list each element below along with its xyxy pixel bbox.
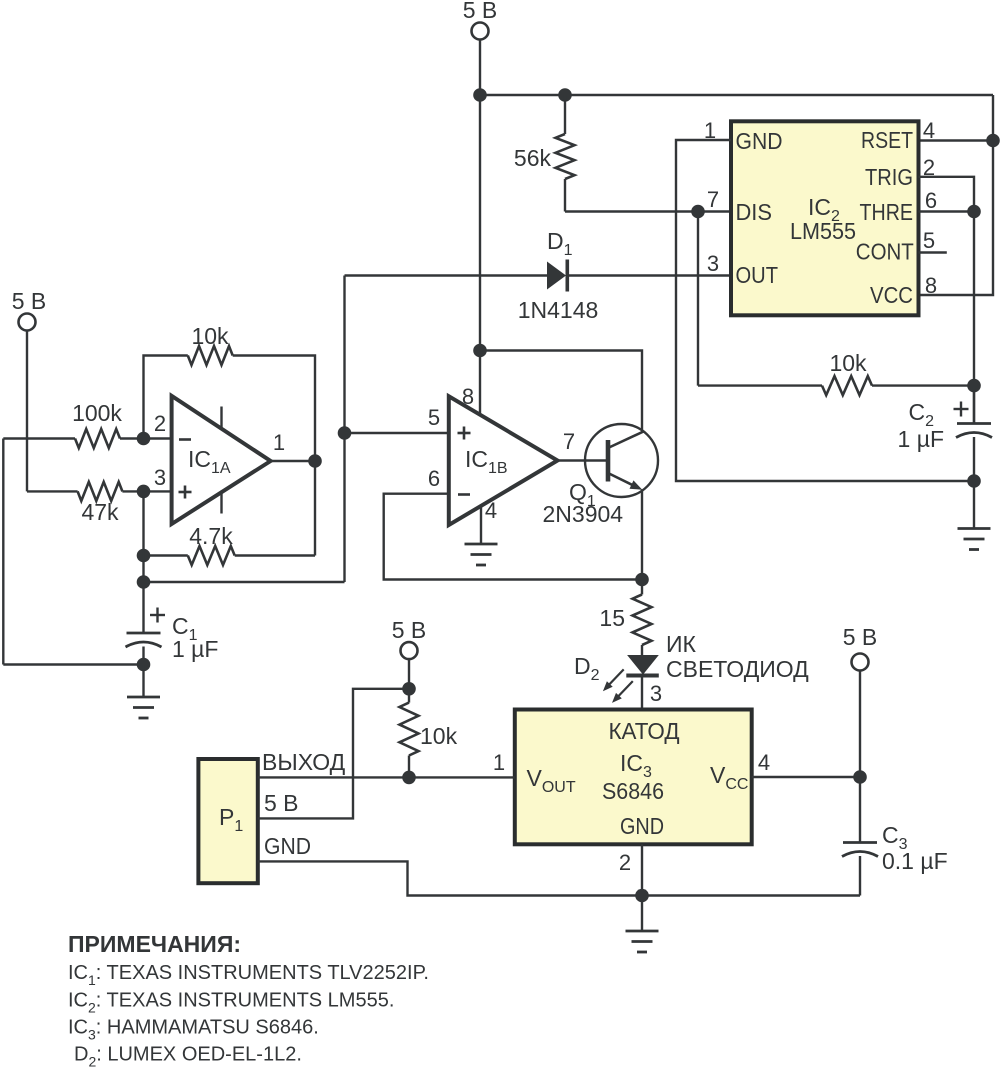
wire IC1B pin 4 stub [480,505,482,543]
svg-text:IC1A: IC1A [188,446,231,477]
wire C2 to ground [973,481,975,528]
pin number 1 (IC1A out) [273,430,285,455]
pin label OUT (IC2) [736,262,779,288]
pin number 3 (IC3) [650,681,662,706]
wire Q1 emitter down [641,490,643,580]
svg-text:1 µF: 1 µF [898,426,944,452]
svg-text:TRIG: TRIG [865,164,913,190]
wire THRE pin 6 [919,210,975,212]
wire IC1B output pin 7 [558,459,607,461]
pin label RSET (IC2) [861,127,913,153]
wire left rail (100k to C1 bottom) [2,439,4,665]
svg-text:5 В: 5 В [264,790,299,816]
wire IC1B pin 6 loop [384,494,642,580]
label 5 В (right terminal) [843,624,878,650]
pin number 6 (IC1B) [428,466,440,491]
svg-text:2: 2 [619,850,631,875]
pin label GND (IC2) [736,128,783,154]
power terminal 5 V (left) [19,314,36,492]
svg-text:GND: GND [736,128,783,154]
label 15 [599,605,625,631]
svg-text:5 В: 5 В [392,617,427,643]
pin number 8 (IC1B) [462,384,474,409]
svg-text:1N4148: 1N4148 [518,297,599,323]
svg-text:GND: GND [264,833,311,859]
label C3 [882,822,908,853]
pin number 5 (IC1B) [428,405,440,430]
pin label VCC (IC2) [870,282,913,308]
wire node to IC1B area [144,581,345,583]
junction top rail / 5V stem [473,88,487,102]
junction 10k top [402,682,416,696]
svg-text:10k: 10k [420,723,458,749]
label 47k [81,499,119,525]
junction emitter / pin6 loop / R15 [635,573,649,587]
label Q1 [569,479,596,510]
junction 4.7k / pin3 column [137,549,151,563]
junction GND rail / IC3 pin2 [635,889,649,903]
wire pin2 to ground [641,896,643,931]
non-inverting input marker (IC1B) [458,427,471,440]
ground (C1) [127,697,160,718]
svg-text:6: 6 [428,466,440,491]
pin number 4 (IC1B) [485,498,497,523]
junction IC1A output / feedback [308,454,322,468]
svg-text:4.7k: 4.7k [189,523,233,549]
pin label CONT (IC2) [856,239,914,265]
pin number 4 (IC3) [758,750,770,775]
svg-text:DIS: DIS [736,199,773,225]
svg-text:LM555: LM555 [790,218,856,244]
svg-text:IC2: TEXAS INSTRUMENTS LM555.: IC2: TEXAS INSTRUMENTS LM555. [68,990,394,1016]
wire RSET pin 4 [919,139,994,141]
label GND (P1 pin) [264,833,311,859]
note IC3 [68,1017,319,1043]
resistor 10k (IC2 timing) [698,376,974,395]
label 10k (IC1A feedback) [191,323,229,349]
label IC3 inside [620,750,652,781]
svg-text:OUT: OUT [736,262,779,288]
inverting input marker (IC1A) [179,438,191,441]
svg-text:4: 4 [758,750,770,775]
svg-text:ПРИМЕЧАНИЯ:: ПРИМЕЧАНИЯ: [68,931,241,957]
svg-text:D1: D1 [547,228,573,259]
label 100k [72,400,122,426]
resistor 56k [556,95,575,212]
svg-text:3: 3 [707,251,719,276]
svg-text:47k: 47k [81,499,119,525]
wire 5V stem down (to IC1B pin 8) [479,95,481,415]
label КАТОД (IC3) [609,718,680,744]
svg-text:3: 3 [154,465,166,490]
svg-text:ВЫХОД: ВЫХОД [262,749,346,775]
emission arrow 1 (D2) [603,669,624,691]
pin number 7 (IC1B out) [563,429,575,454]
connector P1 body [198,759,257,883]
svg-text:10k: 10k [829,350,867,376]
label IC2 inside [808,194,840,225]
wire 5V to Q1 collector [480,351,642,433]
label 0.1 uF (C3) [882,848,948,874]
pin number 1 (IC2 GND) [704,118,716,143]
svg-text:4: 4 [923,118,935,143]
svg-text:D2: D2 [574,653,600,684]
pin label TRIG (IC2) [865,164,913,190]
op-amp IC1A [172,396,271,524]
junction C2 bottom / GND rail [967,474,981,488]
op-amp IC1B [449,396,558,525]
resistor 10k (IC1A feedback) [144,346,316,556]
svg-text:1: 1 [273,430,285,455]
IC U3 S6846 body [515,710,752,845]
wire ВЫХОД (P1 to IC3 pin 1) [258,776,515,778]
svg-text:0.1 µF: 0.1 µF [882,848,948,874]
label C2 [908,399,934,430]
label ВЫХОД [262,749,346,775]
svg-text:2N3904: 2N3904 [543,501,624,527]
svg-text:5 В: 5 В [12,288,47,314]
label 5 В (top terminal) [463,0,498,23]
svg-text:2: 2 [154,411,166,436]
wire pin3 column [142,491,144,632]
pin label VOUT (IC3) [527,765,576,796]
power terminal 5 V (top) [472,23,489,96]
svg-text:THRE: THRE [860,199,914,225]
svg-text:5 В: 5 В [463,0,498,23]
pin number 6 (IC2 THRE) [925,188,937,213]
wire 5V rail right drop to VCC [919,95,994,295]
notes title ПРИМЕЧАНИЯ [68,931,241,957]
label P1 inside [219,804,243,835]
label 4.7k [189,523,233,549]
svg-text:10k: 10k [191,323,229,349]
LED D2 [626,645,659,710]
svg-text:ИК: ИК [666,631,697,657]
wire TRIG pin 2 [919,177,975,423]
junction 10k / C2 [967,379,981,393]
pin number 5 (IC2 CONT) [923,228,935,253]
wire C1 bottom to left rail [3,663,143,665]
capacitor C3 [842,777,878,896]
non-inverting input marker (IC1A) [179,486,192,499]
junction DIS / 10k branch [691,205,705,219]
label S6846 inside [602,778,664,804]
svg-text:RSET: RSET [861,127,913,153]
svg-text:15: 15 [599,605,625,631]
transistor Q1 [585,424,658,497]
wire C1 to ground [142,665,144,697]
svg-text:IC1: TEXAS INSTRUMENTS TLV2252: IC1: TEXAS INSTRUMENTS TLV2252IP. [68,962,429,988]
IC U2 LM555 body [731,121,919,315]
label СВЕТОДИОД [666,656,809,682]
pin number 3 (IC2 OUT) [707,251,719,276]
svg-text:VCC: VCC [870,282,913,308]
label C1 [172,613,198,644]
svg-text:56k: 56k [514,145,552,171]
wire IC1A output [271,460,315,462]
pin number 3 (IC1A) [154,465,166,490]
pin label DIS (IC2) [736,199,773,225]
label ИК [666,631,697,657]
junction RSET tap [986,134,1000,148]
polarity + (C1) [150,608,165,623]
svg-text:5: 5 [428,405,440,430]
svg-text:3: 3 [650,681,662,706]
label IC1A inside [188,446,231,477]
junction C1 bottom [137,658,151,672]
svg-text:GND: GND [620,813,664,839]
pin label THRE (IC2) [860,199,914,225]
diode D1 [547,260,567,292]
pin number 2 (IC1A) [154,411,166,436]
label 56k [514,145,552,171]
label 1N4148 [518,297,599,323]
label 1 uF (C1) [172,636,218,662]
svg-text:IC1B: IC1B [465,446,508,477]
junction THRE [967,205,981,219]
pin label VCC (IC3) [710,762,748,793]
svg-text:5: 5 [923,228,935,253]
wire CONT pin 5 stub [919,251,947,253]
inverting input marker (IC1B) [458,493,470,496]
wire GND pin (P1) [258,861,860,895]
label LM555 inside [790,218,856,244]
label 5 В (middle terminal) [392,617,427,643]
svg-text:7: 7 [707,187,719,212]
wire OUT pin 3 to node (via D1) [345,274,732,276]
junction IC1A pin 3 [137,485,151,499]
label 5 В (left terminal) [12,288,47,314]
wire IC2 GND pin 1 [676,140,974,481]
wire IC1B pin 5 [345,432,449,434]
svg-text:8: 8 [925,273,937,298]
svg-text:4: 4 [485,498,497,523]
resistor 15 [633,580,652,646]
label 1 uF (C2) [898,426,944,452]
resistor 100k [3,429,171,448]
pin number 8 (IC2 VCC) [925,273,937,298]
junction VCC / C3 [853,770,867,784]
resistor 47k [27,482,172,501]
label 5 В (P1 pin) [264,790,299,816]
label D2 [574,653,600,684]
junction IC1B pin5 tap [338,426,352,440]
svg-text:D2: LUMEX OED-EL-1L2.: D2: LUMEX OED-EL-1L2. [74,1044,302,1070]
svg-text:S6846: S6846 [602,778,664,804]
junction 5V stem / collector branch [473,344,487,358]
label GND (IC3) [620,813,664,839]
wire IC3 pin 4 (VCC) [752,776,860,778]
note IC1 [68,962,429,988]
pin number 1 (IC3) [493,750,505,775]
note D2 [74,1044,302,1070]
label 10k (IC2 timing) [829,350,867,376]
ground (IC1B pin 4) [465,544,498,565]
resistor 4.7k [144,546,316,565]
junction top rail / 56k [558,88,572,102]
label 10k (pull-up) [420,723,458,749]
emission arrow 2 (D2) [612,681,633,703]
power terminal 5 V (middle) [401,642,418,689]
svg-text:8: 8 [462,384,474,409]
pin number 2 (IC2 TRIG) [923,155,935,180]
capacitor C2 [956,386,992,481]
wire 5V pin (P1) [258,689,409,819]
svg-text:1 µF: 1 µF [172,636,218,662]
svg-text:7: 7 [563,429,575,454]
label D1 [547,228,573,259]
power terminal 5 V (right) [852,654,869,778]
wire IC3 pin 2 [641,844,643,895]
wire top supply rail [480,94,993,96]
junction 10k bottom / VOUT wire [402,771,416,785]
junction pin3 column / node wire [137,575,151,589]
wire DIS branch down [697,212,699,386]
note IC2 [68,990,394,1016]
wire 56k to DIS pin 7 [565,210,731,212]
svg-text:IC3: HAMMAMATSU S6846.: IC3: HAMMAMATSU S6846. [68,1017,319,1043]
svg-text:КАТОД: КАТОД [609,718,680,744]
svg-text:СВЕТОДИОД: СВЕТОДИОД [666,656,809,682]
svg-text:5 В: 5 В [843,624,878,650]
junction IC1A pin 2 [137,432,151,446]
svg-text:CONT: CONT [856,239,914,265]
polarity + (C2) [954,402,969,417]
pin number 7 (IC2 DIS) [707,187,719,212]
label IC1B inside [465,446,508,477]
label 2N3904 [543,501,624,527]
svg-text:1: 1 [493,750,505,775]
svg-text:6: 6 [925,188,937,213]
ground (IC3 pin 2) [626,931,659,952]
wire node vertical (D1 anode to lower node) [343,276,345,583]
resistor 10k (pull-up) [400,689,419,778]
ground (C2) [958,529,991,550]
svg-text:100k: 100k [72,400,122,426]
pin number 2 (IC3) [619,850,631,875]
pin number 4 (IC2 RSET) [923,118,935,143]
capacitor C1 [126,633,162,665]
